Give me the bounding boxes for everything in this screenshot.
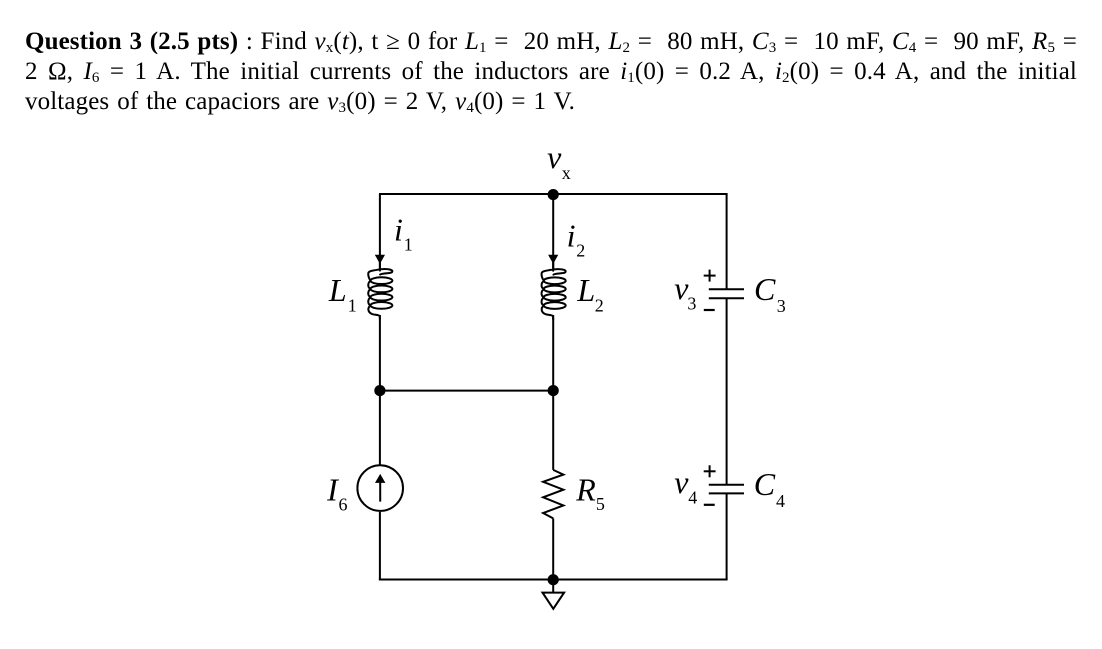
svg-text:4: 4 bbox=[776, 491, 785, 511]
svg-text:I: I bbox=[326, 471, 339, 507]
wire right vertical bottom segment bbox=[726, 493, 728, 579]
wire right vertical top segment bbox=[726, 194, 728, 289]
wire top horizontal bbox=[379, 193, 728, 195]
svg-text:5: 5 bbox=[596, 494, 605, 514]
wire left vertical (top node to L1) bbox=[379, 194, 381, 269]
node vx dot bbox=[548, 189, 559, 200]
wire bottom horizontal bbox=[379, 579, 728, 581]
node bottom ground dot bbox=[548, 574, 559, 585]
label minus C4 bbox=[704, 504, 715, 506]
svg-text:3: 3 bbox=[687, 293, 696, 313]
svg-text:1: 1 bbox=[348, 295, 357, 315]
svg-text:i: i bbox=[567, 218, 576, 254]
node left junction dot bbox=[374, 385, 385, 396]
wire L1 to left junction bbox=[379, 315, 381, 391]
resistor R5 bbox=[543, 470, 563, 519]
capacitor C3 plates bbox=[709, 288, 744, 290]
label plus C3 bbox=[704, 275, 716, 277]
wire R5 to bottom node bbox=[552, 518, 554, 579]
arrow i2 current direction bbox=[548, 255, 558, 264]
wire middle horizontal bbox=[380, 390, 553, 392]
capacitor C4 plates bbox=[709, 484, 744, 486]
question text paragraph bbox=[25, 27, 1077, 117]
wire middle vertical (top node to L2) bbox=[552, 194, 554, 269]
ground symbol bbox=[552, 580, 554, 593]
label plus C4 bbox=[704, 470, 716, 472]
label minus C3 bbox=[704, 309, 715, 311]
svg-text:1: 1 bbox=[404, 234, 413, 254]
svg-text:C: C bbox=[754, 271, 776, 307]
svg-text:C: C bbox=[754, 466, 776, 502]
svg-text:3: 3 bbox=[777, 296, 786, 316]
svg-text:L: L bbox=[328, 272, 347, 308]
svg-text:v: v bbox=[674, 464, 689, 500]
wire left junction to current source bbox=[379, 391, 381, 465]
current source I6 circle bbox=[357, 465, 403, 511]
wire middle junction to R5 bbox=[552, 391, 554, 470]
svg-text:v: v bbox=[547, 139, 562, 175]
svg-text:i: i bbox=[394, 212, 403, 248]
svg-text:x: x bbox=[562, 163, 571, 183]
wire L2 to middle junction bbox=[552, 315, 554, 391]
svg-text:4: 4 bbox=[688, 488, 697, 508]
svg-text:6: 6 bbox=[339, 495, 348, 515]
svg-text:L: L bbox=[576, 272, 595, 308]
arrow i1 current direction bbox=[375, 255, 385, 264]
wire current source to bottom bbox=[379, 512, 381, 581]
current source I6 arrow bbox=[379, 481, 381, 502]
inductor L1 bbox=[368, 263, 392, 320]
svg-text:2: 2 bbox=[595, 296, 604, 316]
svg-text:R: R bbox=[575, 472, 596, 508]
node middle junction dot bbox=[548, 385, 559, 396]
inductor L2 bbox=[542, 263, 566, 320]
wire right vertical middle segment bbox=[726, 298, 728, 485]
svg-text:2: 2 bbox=[576, 240, 585, 260]
